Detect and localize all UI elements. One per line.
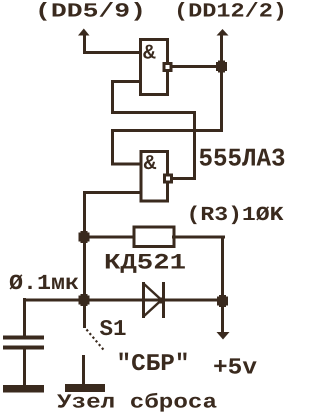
wire: Q vertical drop at x=112	[111, 129, 114, 165]
wire: U1.2 input 2 horizontal	[83, 191, 141, 194]
wire: main horizontal net (cap - S1 node - diode - +5v node)	[23, 299, 223, 302]
diode VD1 triangle outline	[144, 284, 162, 317]
gate U1.1 output inversion bubble	[164, 64, 171, 71]
arrow down +5v	[217, 332, 230, 340]
gate U1.2 output inversion bubble	[164, 175, 171, 182]
wire: U1.1 output to right rail	[171, 65, 219, 68]
svg-text:(R3)1ØK: (R3)1ØK	[187, 204, 284, 227]
arrow up to DD12/2	[217, 29, 229, 36]
wire: U1.2 output feedback to U1.1 input 2	[111, 80, 141, 83]
diode VD1 apex blob	[159, 298, 165, 304]
arrow up to DD5/9	[78, 29, 90, 55]
svg-text:(DD12/2): (DD12/2)	[174, 1, 287, 24]
junction: left rail / resistor node	[79, 233, 90, 242]
wire: U1.2 output to feedback vertical	[171, 177, 194, 180]
capacitor C1 top lead	[23, 298, 26, 336]
junction: S1 / cap / diode node	[79, 296, 90, 305]
wire: vertical from resistor corner down to +5v node	[221, 236, 224, 302]
svg-text:Ø.1мк: Ø.1мк	[9, 272, 79, 296]
junction: +5v node	[217, 297, 228, 306]
wire: left rail x=84 from U1.2 input 2 down to switch	[83, 191, 86, 328]
svg-text:555ЛА3: 555ЛА3	[199, 144, 286, 173]
wire: arrow to gate U1 input 1	[83, 51, 141, 54]
wire: feedback vertical at x=194	[193, 111, 196, 180]
wire: Q into U1.2 input 1	[111, 163, 142, 166]
capacitor C1 top plate	[3, 336, 44, 340]
switch S1 bottom contact lead	[82, 355, 85, 385]
svg-text:Узел сброса: Узел сброса	[57, 392, 217, 415]
svg-text:КД521: КД521	[104, 251, 186, 276]
capacitor C1 bottom plate	[3, 346, 44, 350]
svg-text:&: &	[143, 43, 156, 66]
svg-text:(DD5/9): (DD5/9)	[35, 1, 146, 24]
wire: resistor R3 right to corner	[172, 236, 225, 239]
switch S1 blade (dotted)	[87, 330, 106, 352]
capacitor C1 bottom lead	[23, 349, 26, 386]
resistor R3 body	[134, 227, 174, 247]
ground bar under capacitor	[3, 385, 44, 393]
svg-text:"СБР": "СБР"	[117, 351, 190, 378]
svg-text:S1: S1	[100, 316, 127, 342]
wire: cross-coupling Q horizontal (U1.1 out to U1.2 in)	[111, 129, 223, 132]
NAND gate U1.2 body	[141, 152, 168, 202]
diode VD1 cathode bar	[162, 282, 165, 318]
junction: U1.1 output node	[216, 62, 227, 71]
NAND gate U1.1 body	[141, 40, 168, 95]
svg-text:&: &	[144, 153, 157, 176]
diode VD1 anode bar	[142, 282, 145, 318]
svg-text:+5v: +5v	[213, 355, 257, 381]
ground bar under switch	[65, 384, 105, 392]
wire: right rail from arrow down to cross-coupling corner	[220, 34, 223, 132]
wire: +5v node down to arrow	[221, 301, 224, 333]
wire: junction to resistor R3 left	[84, 236, 135, 239]
wire: feedback vertical at x=112	[111, 80, 114, 114]
wire: feedback horizontal at y=112	[111, 111, 196, 114]
